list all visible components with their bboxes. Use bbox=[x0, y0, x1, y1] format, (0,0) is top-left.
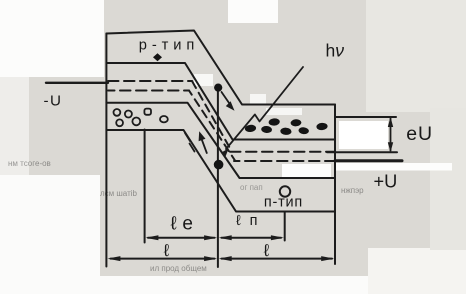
hole circle 1 bbox=[114, 109, 121, 116]
svg-text:ℓ: ℓ bbox=[263, 241, 270, 260]
p-side Fermi dashed line D2 bbox=[108, 90, 189, 92]
l left arrow left bbox=[107, 256, 120, 261]
scan light patch right-top bbox=[366, 0, 466, 112]
scan white spot near photon kink bbox=[250, 94, 266, 104]
scan white patch bottom-left bbox=[0, 175, 100, 294]
hv photon ray with kink bbox=[226, 67, 303, 149]
scan white spot left of electron dot bbox=[194, 74, 213, 86]
hole circles in p valence strip bbox=[114, 109, 291, 197]
dimension line l right bbox=[222, 258, 333, 260]
outer top boundary L1 with slope into n-region top bbox=[106, 31, 335, 105]
dashed diagonal D2 across junction bbox=[189, 91, 235, 161]
hole circle 6 bbox=[160, 116, 168, 122]
dashed diagonal D1 across junction bbox=[192, 81, 231, 150]
svg-text:нм тсоге-ов: нм тсоге-ов bbox=[8, 159, 51, 168]
n-side Fermi dashed line D2n bbox=[234, 160, 334, 162]
electron drift arrow shaft bbox=[222, 92, 232, 107]
scan white patch left column bbox=[0, 77, 29, 177]
electron ellipse 7 bbox=[316, 123, 328, 131]
scan white patch bottom-right bbox=[368, 248, 466, 294]
left edge of p-region bbox=[105, 34, 107, 267]
hole square 5 bbox=[144, 109, 151, 115]
photogenerated hole dot bbox=[214, 160, 224, 170]
svg-text:ℓ: ℓ bbox=[163, 241, 170, 260]
ln arrow right bbox=[271, 235, 284, 240]
dimension line l left bbox=[111, 258, 215, 260]
n-side Fermi dashed line D1n bbox=[230, 151, 334, 153]
scan white patch in eU box bbox=[339, 121, 388, 149]
+U lead wire (thick) bbox=[335, 159, 402, 162]
hole drift arrowhead bbox=[199, 131, 206, 141]
electron ellipse 2 bbox=[261, 126, 272, 134]
hole circle 4 bbox=[132, 118, 140, 126]
svg-text:нжпэр: нжпэр bbox=[341, 186, 364, 195]
hv ray arrowhead bbox=[221, 148, 229, 157]
le arrow right bbox=[204, 235, 217, 240]
ghost bleed-through text marks bbox=[8, 159, 364, 273]
ln arrow left bbox=[219, 235, 232, 240]
short dashed marks in valence slope bbox=[185, 133, 190, 141]
electron ellipse 4 bbox=[280, 127, 292, 135]
hole drift arrow shaft bbox=[201, 138, 207, 154]
eU dimension arrow shaft bbox=[390, 118, 392, 151]
p-side Fermi dashed line D1 bbox=[108, 80, 192, 82]
svg-text:-U: -U bbox=[44, 92, 63, 109]
arrowheads bbox=[107, 101, 393, 261]
svg-text:ил прод общем: ил прод общем bbox=[150, 264, 207, 273]
electron drift arrowhead bbox=[226, 101, 235, 111]
scan white patch above n valence line bbox=[282, 164, 331, 177]
hole circle 2 bbox=[125, 111, 132, 118]
p-type marker diamond bbox=[153, 53, 162, 61]
svg-text:eU: eU bbox=[406, 123, 433, 145]
scan white band bottom bbox=[0, 276, 466, 294]
conduction band edge L2 with slope into electron strip bottom bbox=[106, 63, 335, 140]
electron ellipse 5 bbox=[290, 119, 301, 127]
eU bracket top line bbox=[335, 116, 396, 118]
svg-text:п-тип: п-тип bbox=[264, 195, 302, 211]
scan white patch top-center bbox=[228, 0, 278, 23]
svg-text:ℓe: ℓe bbox=[171, 213, 194, 234]
l right arrow right bbox=[321, 256, 334, 261]
right edge of n-region bbox=[334, 105, 336, 265]
eU dimension arrow bottom bbox=[388, 142, 393, 152]
photogenerated electron dot bbox=[214, 84, 222, 92]
l left arrow right bbox=[204, 256, 217, 261]
svg-text:ог пап: ог пап bbox=[240, 183, 263, 192]
scan white patch top-left bbox=[0, 0, 104, 77]
scan white strip under +U lead bbox=[335, 163, 452, 171]
depletion edge extension line (p side) bbox=[144, 130, 146, 243]
-U lead wire bbox=[46, 82, 108, 84]
l right arrow left bbox=[219, 256, 232, 261]
valence band top L3 with slope into n valence line bbox=[106, 103, 335, 178]
hole circle 3 bbox=[116, 119, 123, 126]
eU dimension arrow top bbox=[388, 117, 393, 127]
eU bracket bottom line bbox=[327, 151, 397, 153]
hole circle in n region bbox=[280, 186, 290, 196]
scan white spot above electron strip bbox=[266, 108, 302, 115]
photogenerated pair vertical line bbox=[217, 87, 219, 267]
electron ellipse 1 bbox=[245, 124, 257, 132]
electron ellipse 3 bbox=[268, 118, 280, 126]
electron ellipse 6 bbox=[298, 127, 309, 135]
dimension line le bbox=[148, 237, 215, 239]
scan light strip far-right bbox=[430, 108, 466, 250]
le arrow left bbox=[145, 235, 158, 240]
electron ellipses in n conduction strip bbox=[153, 53, 328, 169]
valence strip bottom L4 with slope into n bottom boundary bbox=[106, 130, 335, 212]
dimension line ln bbox=[222, 237, 282, 239]
svg-text:+U: +U bbox=[374, 171, 398, 191]
extension line below n-type label bbox=[284, 212, 286, 241]
svg-text:hν: hν bbox=[326, 41, 345, 61]
